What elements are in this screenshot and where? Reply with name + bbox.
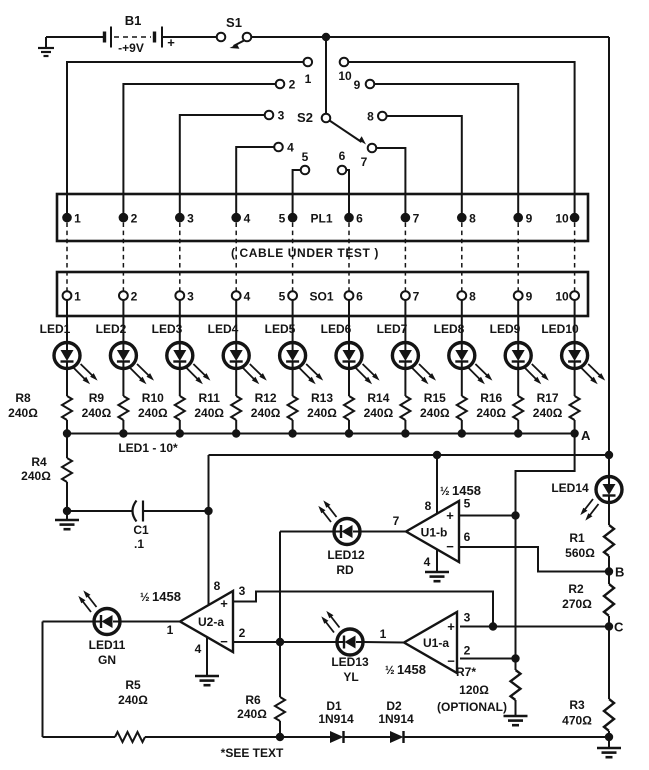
svg-text:1: 1 bbox=[380, 627, 387, 641]
svg-text:½: ½ bbox=[385, 665, 395, 677]
svg-text:1N914: 1N914 bbox=[378, 712, 414, 726]
svg-text:5: 5 bbox=[464, 497, 471, 511]
svg-text:1458: 1458 bbox=[152, 589, 181, 604]
svg-text:R16: R16 bbox=[480, 391, 502, 405]
svg-text:6: 6 bbox=[356, 212, 363, 226]
svg-text:D2: D2 bbox=[386, 699, 402, 713]
svg-text:4: 4 bbox=[287, 141, 294, 155]
svg-text:4: 4 bbox=[195, 642, 202, 656]
svg-text:( CABLE UNDER TEST ): ( CABLE UNDER TEST ) bbox=[231, 246, 379, 260]
svg-text:.1: .1 bbox=[134, 537, 144, 551]
svg-text:7: 7 bbox=[361, 155, 368, 169]
svg-text:B: B bbox=[615, 565, 624, 580]
svg-text:3: 3 bbox=[464, 611, 471, 625]
svg-text:LED12: LED12 bbox=[327, 548, 365, 562]
svg-text:3: 3 bbox=[278, 109, 285, 123]
svg-text:1458: 1458 bbox=[397, 662, 426, 677]
svg-text:GN: GN bbox=[98, 653, 116, 667]
svg-text:3: 3 bbox=[187, 212, 194, 226]
svg-text:R14: R14 bbox=[367, 391, 389, 405]
svg-text:240Ω: 240Ω bbox=[364, 406, 394, 420]
svg-text:C: C bbox=[614, 620, 624, 635]
svg-text:LED9: LED9 bbox=[490, 322, 521, 336]
svg-text:+: + bbox=[167, 35, 175, 50]
svg-text:240Ω: 240Ω bbox=[476, 406, 506, 420]
svg-text:R5: R5 bbox=[125, 678, 141, 692]
svg-text:R11: R11 bbox=[199, 391, 221, 405]
svg-text:LED1: LED1 bbox=[40, 322, 71, 336]
svg-text:LED14: LED14 bbox=[551, 481, 589, 495]
svg-text:240Ω: 240Ω bbox=[138, 406, 168, 420]
svg-text:R7*: R7* bbox=[456, 665, 476, 679]
svg-text:LED10: LED10 bbox=[541, 322, 579, 336]
svg-text:8: 8 bbox=[214, 579, 221, 593]
svg-text:2: 2 bbox=[464, 644, 471, 658]
svg-text:+: + bbox=[446, 508, 454, 523]
svg-text:LED13: LED13 bbox=[331, 655, 369, 669]
svg-text:7: 7 bbox=[413, 212, 420, 226]
svg-text:1N914: 1N914 bbox=[318, 712, 354, 726]
svg-text:240Ω: 240Ω bbox=[307, 406, 337, 420]
svg-text:7: 7 bbox=[393, 514, 400, 528]
svg-text:LED11: LED11 bbox=[89, 638, 126, 652]
svg-text:R10: R10 bbox=[142, 391, 164, 405]
svg-text:10: 10 bbox=[555, 212, 569, 226]
svg-text:1: 1 bbox=[167, 623, 174, 637]
svg-text:U1-b: U1-b bbox=[421, 526, 448, 540]
svg-text:SO1: SO1 bbox=[309, 290, 333, 304]
svg-text:D1: D1 bbox=[326, 699, 342, 713]
svg-text:*SEE TEXT: *SEE TEXT bbox=[221, 746, 284, 760]
svg-text:R13: R13 bbox=[311, 391, 333, 405]
svg-text:R15: R15 bbox=[424, 391, 446, 405]
svg-text:LED2: LED2 bbox=[96, 322, 127, 336]
svg-text:240Ω: 240Ω bbox=[194, 406, 224, 420]
svg-text:240Ω: 240Ω bbox=[82, 406, 112, 420]
svg-text:U1-a: U1-a bbox=[423, 636, 449, 650]
svg-text:7: 7 bbox=[413, 290, 420, 304]
svg-text:LED4: LED4 bbox=[208, 322, 239, 336]
svg-text:R1: R1 bbox=[569, 531, 585, 545]
svg-text:4: 4 bbox=[244, 212, 251, 226]
svg-text:R17: R17 bbox=[537, 391, 559, 405]
svg-text:LED5: LED5 bbox=[265, 322, 296, 336]
svg-text:R4: R4 bbox=[31, 455, 47, 469]
svg-text:−: − bbox=[220, 634, 228, 649]
svg-text:RD: RD bbox=[336, 563, 354, 577]
svg-text:3: 3 bbox=[239, 584, 246, 598]
svg-text:9: 9 bbox=[526, 212, 533, 226]
svg-text:10: 10 bbox=[338, 69, 352, 83]
svg-text:2: 2 bbox=[239, 626, 246, 640]
svg-text:½: ½ bbox=[440, 486, 450, 498]
svg-text:6: 6 bbox=[356, 290, 363, 304]
svg-text:3: 3 bbox=[187, 290, 194, 304]
svg-text:8: 8 bbox=[367, 110, 374, 124]
svg-text:−: − bbox=[447, 654, 455, 669]
svg-text:8: 8 bbox=[469, 212, 476, 226]
svg-text:−: − bbox=[446, 539, 454, 554]
svg-text:(OPTIONAL): (OPTIONAL) bbox=[437, 700, 507, 714]
svg-text:4: 4 bbox=[244, 290, 251, 304]
svg-text:10: 10 bbox=[555, 290, 569, 304]
svg-text:470Ω: 470Ω bbox=[562, 714, 592, 728]
svg-text:1: 1 bbox=[305, 72, 312, 86]
svg-text:S1: S1 bbox=[226, 15, 242, 30]
svg-text:6: 6 bbox=[464, 530, 471, 544]
svg-text:9: 9 bbox=[526, 290, 533, 304]
svg-text:240Ω: 240Ω bbox=[8, 406, 38, 420]
svg-text:-+9V: -+9V bbox=[118, 41, 144, 55]
svg-text:240Ω: 240Ω bbox=[21, 469, 51, 483]
svg-text:270Ω: 270Ω bbox=[562, 597, 592, 611]
svg-text:PL1: PL1 bbox=[310, 212, 332, 226]
svg-text:LED3: LED3 bbox=[152, 322, 183, 336]
svg-text:B1: B1 bbox=[125, 13, 142, 28]
svg-text:8: 8 bbox=[425, 499, 432, 513]
svg-text:5: 5 bbox=[279, 212, 286, 226]
svg-text:S2: S2 bbox=[297, 110, 313, 125]
svg-text:+: + bbox=[447, 619, 455, 634]
svg-text:8: 8 bbox=[469, 290, 476, 304]
svg-text:2: 2 bbox=[131, 212, 138, 226]
svg-text:R2: R2 bbox=[568, 582, 584, 596]
svg-text:½: ½ bbox=[140, 592, 150, 604]
svg-text:560Ω: 560Ω bbox=[565, 546, 595, 560]
svg-text:240Ω: 240Ω bbox=[533, 406, 563, 420]
svg-text:240Ω: 240Ω bbox=[237, 707, 267, 721]
svg-text:C1: C1 bbox=[133, 523, 149, 537]
svg-text:R6: R6 bbox=[245, 693, 261, 707]
svg-text:YL: YL bbox=[343, 670, 358, 684]
svg-text:9: 9 bbox=[354, 78, 361, 92]
svg-text:2: 2 bbox=[289, 78, 296, 92]
svg-text:LED1 - 10*: LED1 - 10* bbox=[118, 441, 178, 455]
svg-text:U2-a: U2-a bbox=[198, 615, 224, 629]
svg-text:240Ω: 240Ω bbox=[251, 406, 281, 420]
svg-text:5: 5 bbox=[279, 290, 286, 304]
svg-text:+: + bbox=[220, 596, 228, 611]
svg-text:1: 1 bbox=[74, 212, 81, 226]
svg-text:A: A bbox=[581, 428, 591, 443]
svg-text:240Ω: 240Ω bbox=[420, 406, 450, 420]
svg-text:6: 6 bbox=[339, 149, 346, 163]
svg-text:240Ω: 240Ω bbox=[118, 693, 148, 707]
svg-text:LED8: LED8 bbox=[434, 322, 465, 336]
svg-text:1: 1 bbox=[74, 290, 81, 304]
svg-text:R8: R8 bbox=[15, 391, 31, 405]
svg-text:R12: R12 bbox=[255, 391, 277, 405]
svg-text:2: 2 bbox=[131, 290, 138, 304]
svg-text:120Ω: 120Ω bbox=[459, 683, 489, 697]
svg-text:R3: R3 bbox=[569, 698, 585, 712]
svg-text:LED7: LED7 bbox=[377, 322, 408, 336]
svg-text:5: 5 bbox=[302, 150, 309, 164]
svg-text:4: 4 bbox=[424, 555, 431, 569]
svg-text:R9: R9 bbox=[89, 391, 105, 405]
svg-text:LED6: LED6 bbox=[321, 322, 352, 336]
